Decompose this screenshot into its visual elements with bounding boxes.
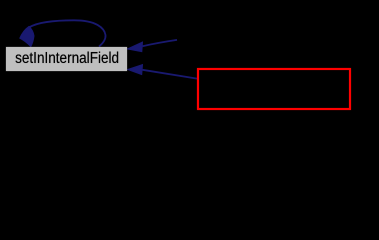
- wire lower caller edge arrowhead: [128, 65, 143, 75]
- wire: edge svg layer: [0, 0, 379, 117]
- wire upper caller edge line: [143, 40, 178, 46]
- wire self-loop arrowhead: [20, 26, 34, 46]
- wire upper caller edge arrowhead: [127, 42, 142, 52]
- node caller (red-bordered, truncated): [197, 68, 351, 110]
- wire lower caller edge line: [143, 70, 198, 79]
- wire self-loop arc on node setInInternalField: [30, 20, 106, 46]
- node setInInternalField (current function, gray): [6, 47, 127, 71]
